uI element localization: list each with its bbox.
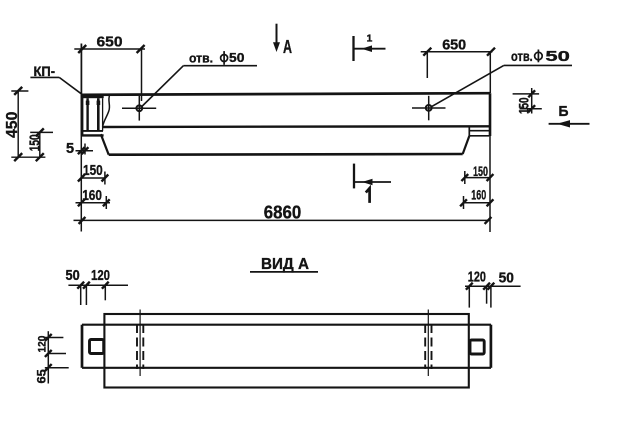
right square hole plan bbox=[470, 340, 484, 354]
hole right circle bbox=[426, 105, 432, 111]
svg-text:отв.: отв. bbox=[189, 51, 213, 65]
label otv.f50 right with leader bbox=[431, 65, 572, 107]
dimension 160 bottom left bbox=[76, 196, 111, 209]
dimension 150 bottom right bbox=[461, 171, 493, 184]
dimension 150 bottom left bbox=[78, 172, 108, 185]
view arrow A bbox=[276, 24, 278, 44]
wire right bearing ledge bbox=[469, 127, 489, 136]
centerline left plan bbox=[139, 310, 141, 377]
dimension 650 right bbox=[421, 48, 495, 93]
svg-text:160: 160 bbox=[82, 188, 102, 204]
section mark 1 bottom bbox=[353, 164, 355, 189]
svg-text:50: 50 bbox=[66, 268, 80, 284]
svg-text:160: 160 bbox=[471, 186, 486, 202]
title underline bbox=[250, 271, 318, 273]
svg-text:150: 150 bbox=[515, 97, 531, 114]
dimension 450 left bbox=[11, 87, 45, 161]
plan dims 50 120 left bbox=[68, 282, 128, 305]
plan dims 120 50 right bbox=[465, 283, 521, 308]
slab rectangle plan bbox=[104, 314, 468, 388]
plan left vertical dims 120 65 bbox=[43, 331, 68, 383]
centerline right plan bbox=[427, 310, 429, 377]
svg-text:50: 50 bbox=[229, 50, 244, 65]
svg-text:5: 5 bbox=[66, 141, 74, 157]
wire right end cap plan bbox=[490, 325, 493, 368]
hole right crosshair bbox=[412, 96, 446, 121]
svg-text:450: 450 bbox=[4, 111, 21, 138]
svg-text:150: 150 bbox=[473, 163, 488, 179]
dimension 650 left bbox=[74, 44, 145, 102]
dimension 5 bbox=[76, 44, 94, 232]
wire beam lower bottom edge bbox=[109, 153, 463, 156]
hidden hole dashed left bbox=[137, 324, 143, 369]
wire beam right taper slope bbox=[463, 136, 470, 154]
hidden hole dashed right bbox=[425, 324, 431, 369]
svg-text:1: 1 bbox=[367, 32, 373, 44]
svg-text:65: 65 bbox=[35, 369, 49, 384]
svg-text:50: 50 bbox=[545, 48, 569, 65]
svg-text:А: А bbox=[283, 37, 292, 57]
wire beam upper-band bottom edge bbox=[102, 125, 489, 128]
svg-text:150: 150 bbox=[27, 134, 44, 151]
label otv.f50 left with leader bbox=[141, 66, 257, 108]
svg-text:отв.: отв. bbox=[511, 49, 533, 64]
left square hole plan bbox=[90, 340, 104, 354]
svg-text:КП-: КП- bbox=[34, 64, 56, 79]
wire band top edge plan bbox=[82, 324, 491, 326]
section mark 1 top bbox=[352, 36, 354, 61]
svg-text:650: 650 bbox=[97, 35, 123, 51]
wire beam left taper slope bbox=[101, 134, 109, 155]
dimension 150 left vertical bbox=[30, 128, 53, 161]
view arrow B right bbox=[549, 123, 590, 125]
svg-text:120: 120 bbox=[37, 336, 49, 353]
svg-text:120: 120 bbox=[91, 268, 110, 284]
wire beam top edge bbox=[82, 93, 491, 95]
svg-text:50: 50 bbox=[499, 271, 514, 287]
hole left crosshair bbox=[122, 96, 156, 121]
dimension 150 right side vertical bbox=[513, 88, 542, 114]
svg-text:150: 150 bbox=[83, 162, 103, 179]
wire beam right end edge bbox=[489, 93, 492, 136]
wire break curve at left end bbox=[103, 95, 110, 127]
svg-text:6860: 6860 bbox=[264, 203, 301, 223]
svg-text:Б: Б bbox=[559, 104, 569, 120]
svg-text:650: 650 bbox=[442, 38, 466, 54]
dimension 160 bottom right bbox=[460, 196, 493, 209]
wire left end cap plan bbox=[81, 325, 84, 368]
wire band bottom edge plan bbox=[82, 367, 491, 369]
svg-text:120: 120 bbox=[468, 269, 486, 286]
dimension 6860 overall bbox=[74, 136, 492, 232]
svg-text:ВИД А: ВИД А bbox=[261, 256, 309, 273]
bracket KP left embedded part bbox=[81, 94, 104, 136]
hole left circle bbox=[136, 105, 142, 111]
